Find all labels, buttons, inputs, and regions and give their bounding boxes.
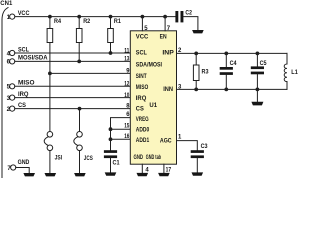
junction INN-C4 (224, 88, 228, 92)
junction INP-R3 (194, 52, 198, 56)
svg-text:MOSI/SDA: MOSI/SDA (18, 56, 48, 62)
wire IRQ (15, 97, 131, 99)
ground (antenna) (251, 102, 263, 106)
svg-text:10: 10 (124, 93, 130, 99)
svg-text:CS: CS (136, 106, 144, 112)
U1 pin 2 number (INP) (178, 48, 182, 54)
U1 pin 5 stub (VCC) (142, 17, 148, 32)
svg-text:4: 4 (145, 167, 149, 173)
pin 5 (MISO) (7, 81, 35, 91)
junction VCC-pin5 (141, 15, 145, 19)
pin 2 (CS) (7, 103, 26, 113)
wire INP line (177, 52, 288, 54)
ground (JCS) (74, 173, 86, 176)
U1 pin 4 stub (GND) (142, 164, 149, 173)
connector CN1 label (0, 1, 13, 7)
svg-text:MISO: MISO (18, 81, 35, 87)
capacitor C2 (175, 10, 192, 22)
svg-text:GND: GND (134, 155, 144, 161)
junction ADD1 (109, 137, 113, 141)
U1 pin 1 number (AGC) (178, 135, 182, 141)
svg-text:INP: INP (162, 51, 173, 57)
pin 4 (SCL) (7, 47, 30, 57)
resistor R1 (108, 17, 122, 43)
svg-text:VCC: VCC (18, 11, 30, 17)
svg-text:17: 17 (166, 168, 172, 174)
svg-text:R4: R4 (54, 19, 62, 25)
capacitor C5 (251, 53, 267, 89)
junction INN-R3 (194, 88, 198, 92)
ground (C3) (192, 172, 204, 175)
pin 1 (VCC) (7, 11, 31, 21)
svg-text:12: 12 (124, 82, 130, 88)
wire VREG net (111, 118, 131, 151)
svg-text:INN: INN (163, 87, 173, 93)
svg-text:SCL: SCL (136, 51, 147, 57)
svg-text:R1: R1 (114, 19, 122, 25)
svg-text:SCL: SCL (18, 47, 29, 53)
svg-text:SINT: SINT (136, 74, 147, 80)
wire SINT line to U1 pin 9 (50, 72, 130, 74)
svg-text:JSI: JSI (55, 156, 63, 162)
wire CS to JCS (79, 109, 81, 132)
wire ADD1 (111, 138, 131, 140)
wire R2 to SDA line (78, 43, 80, 62)
svg-text:GND tab: GND tab (146, 155, 161, 161)
junction INP-C4 (224, 52, 228, 56)
wire R1 to SCL line (110, 43, 112, 54)
wire GND pin7 (16, 168, 29, 174)
capacitor C1 (104, 150, 120, 166)
junction INN-C5 (256, 88, 260, 92)
junction SCL-R1 (109, 51, 113, 55)
svg-text:VREG: VREG (136, 117, 149, 123)
resistor R2 (76, 17, 90, 43)
jumper JCS (74, 132, 93, 162)
junction VCC-R1 (109, 15, 113, 19)
svg-text:11: 11 (124, 48, 130, 54)
ground (C1) (105, 172, 117, 175)
svg-text:ADD0: ADD0 (136, 128, 150, 134)
svg-text:CN1: CN1 (0, 1, 13, 7)
svg-text:1: 1 (178, 135, 182, 141)
svg-text:U1: U1 (149, 103, 157, 109)
svg-text:C2: C2 (185, 10, 192, 16)
junction VCC-R2 (77, 15, 81, 19)
svg-text:R3: R3 (202, 70, 210, 76)
inductor L1 (284, 53, 298, 89)
wire C1 to ground (110, 158, 112, 172)
svg-text:VCC: VCC (136, 35, 149, 41)
U1 pin 3 number (INN) (178, 85, 182, 91)
resistor R3 (193, 53, 209, 89)
ground (JSI) (45, 173, 57, 176)
pin 3 (IRQ) (7, 92, 29, 102)
svg-text:IRQ: IRQ (136, 96, 147, 102)
svg-text:15: 15 (124, 124, 130, 130)
svg-text:C1: C1 (113, 160, 121, 166)
pin 7 (GND) (7, 160, 30, 172)
svg-text:AGC: AGC (160, 138, 172, 144)
ground (U1 pin 17) (158, 173, 170, 176)
U1 internal pin names left (134, 35, 167, 161)
junction VCC-R4 (48, 15, 52, 19)
svg-text:IRQ: IRQ (18, 92, 29, 98)
wire CS (15, 108, 131, 110)
svg-text:C4: C4 (230, 61, 238, 67)
wire JCS to ground (79, 151, 81, 173)
ground (U1 pin 4) (137, 173, 149, 176)
wire MISO (15, 85, 131, 87)
junction CS-JCS (78, 107, 82, 111)
wire JSI to ground (49, 151, 51, 173)
U1 designator (149, 103, 157, 109)
svg-text:MISO: MISO (136, 85, 149, 91)
U1 pin 17 stub (GND tab) (164, 164, 172, 173)
svg-text:JCS: JCS (84, 156, 93, 162)
svg-text:GND: GND (18, 160, 30, 166)
U1 internal pin names right (160, 51, 174, 145)
svg-text:L1: L1 (291, 70, 298, 76)
connector CN1 bracket (2, 8, 8, 179)
junction SINT line (48, 72, 52, 76)
svg-text:13: 13 (124, 57, 130, 63)
wire C2 to ground (183, 17, 198, 30)
capacitor C4 (220, 53, 238, 89)
wire R4 to JSI (SINT net vertical) (49, 43, 51, 132)
ground (pin 7) (23, 173, 35, 176)
svg-text:CS: CS (18, 103, 26, 109)
junction INP-C5 (256, 52, 260, 56)
junction SDA-R2 (77, 60, 81, 64)
svg-text:EN: EN (160, 35, 167, 41)
wire SCL (15, 52, 131, 54)
ground (C2) (192, 30, 204, 33)
wire VCC rail (15, 16, 176, 18)
svg-text:ADD1: ADD1 (136, 138, 150, 144)
svg-text:C3: C3 (201, 144, 209, 150)
wire INN line (177, 88, 288, 90)
wire antenna ground stub (256, 89, 258, 101)
wire MOSI/SDA (15, 60, 131, 62)
junction ADD0 (109, 127, 113, 131)
U1 pin numbers left (124, 48, 130, 140)
pin 6 (MOSI/SDA) (7, 56, 49, 66)
IC U1 body (130, 31, 176, 164)
svg-text:16: 16 (124, 134, 130, 140)
wire C3 to ground (196, 158, 198, 172)
wire ADD0 (111, 128, 131, 130)
jumper JSI (44, 132, 62, 162)
svg-text:SDA/MOSI: SDA/MOSI (136, 63, 162, 69)
svg-text:C5: C5 (260, 61, 268, 67)
junction VCC-pin7 (163, 15, 167, 19)
capacitor C3 (191, 144, 209, 158)
resistor R4 (47, 17, 62, 43)
wire AGC to C3 (177, 141, 198, 151)
svg-text:R2: R2 (83, 19, 91, 25)
U1 pin 7 stub (EN) (165, 17, 171, 32)
